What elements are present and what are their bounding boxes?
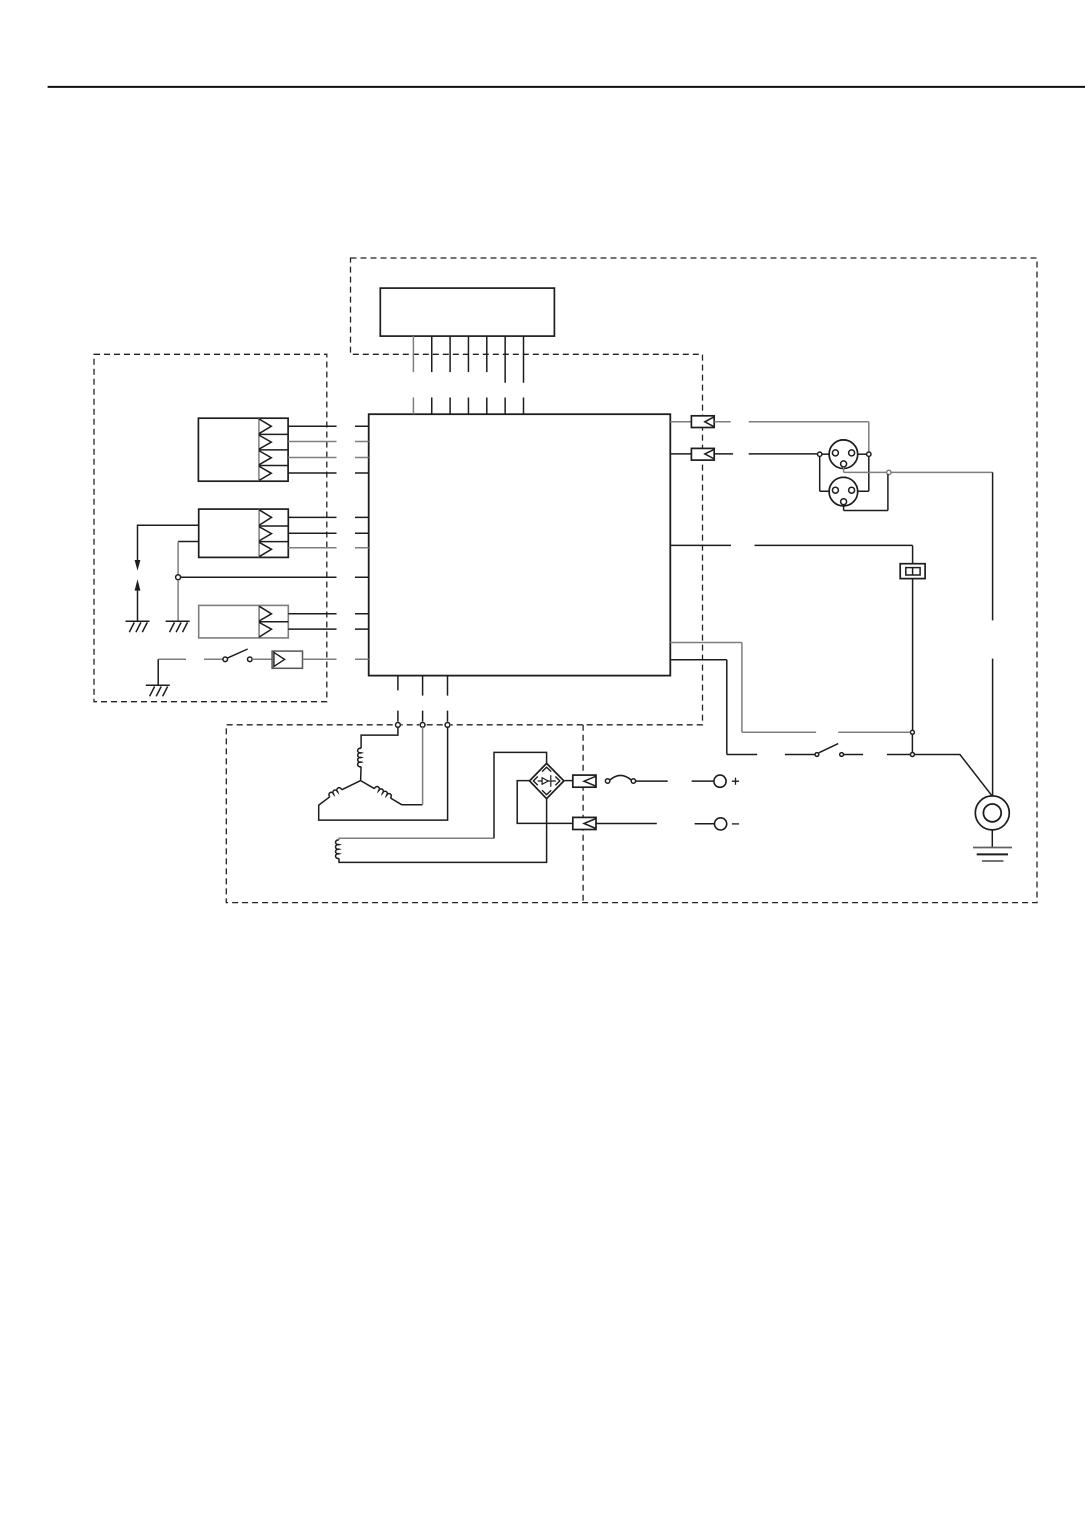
wire: display pin 6 (504, 336, 506, 414)
wire: J1 right terminal down to J2 (858, 456, 869, 491)
wire: CN2 pin 3 (288, 547, 368, 549)
wire: CN4 to XLR J1 pin2 (714, 422, 869, 453)
wire: J1 left terminal down to J2 (820, 456, 830, 491)
wire: rectifier plus lead (565, 780, 573, 782)
wire: CN3 pin 1 (288, 613, 368, 615)
connector CN3 (2-pin input jack block) (199, 605, 289, 638)
wire: main PCB mains B (670, 643, 910, 733)
wire: secondary bottom to rectifier AC2 (339, 799, 547, 863)
power switch S3 (815, 744, 843, 757)
wire: display pin 4 (467, 336, 469, 414)
wire: J1 right stub (858, 453, 867, 455)
node: shield bus junction (887, 470, 891, 474)
wire: terminal a to primary winding 1 (361, 727, 398, 748)
wire: main PCB mains C to power switch (670, 660, 815, 755)
wire: main PCB to transformer pin b (422, 676, 424, 723)
wire: CN2 pin 1 (288, 516, 368, 518)
earth terminal E1 (975, 796, 1009, 848)
switch S1 (mute switch) (158, 649, 252, 662)
wire: CN3 pin 2 (288, 628, 368, 630)
wire: display pin 1 (412, 336, 414, 414)
switch S2 (605, 775, 635, 783)
main PCB box U1 (369, 414, 671, 675)
transformer T1 primary winding 3 (coil) (374, 786, 392, 798)
wire: CN1 pin 4 (288, 472, 369, 474)
wire: shield bus to earth lead (891, 471, 993, 473)
wire: CN2 pin 2 (288, 532, 368, 534)
wire: display pin 2 (431, 336, 433, 414)
connector CN4 (691, 416, 714, 428)
node: transformer terminal c (444, 722, 451, 729)
node: ground bus junction (176, 575, 181, 580)
terminal node at J1 left (818, 452, 822, 456)
wire: J1 shell ground (844, 467, 887, 473)
wire: main PCB to transformer pin c (447, 676, 449, 723)
wire: node to node (911, 734, 913, 752)
wire: CN1 pin 1 (288, 425, 369, 427)
wire: CN7 to minus terminal (596, 823, 715, 825)
wire: CN5 to XLR J1 pin1 terminal (714, 453, 818, 455)
connector CN7 (minus) (573, 817, 596, 829)
wire: winding 1 to star point (360, 767, 363, 781)
node: mains junction upper (910, 730, 914, 734)
header rule (48, 86, 1085, 88)
wire: earth lead vertical (992, 472, 994, 796)
wire: main PCB line out B (670, 453, 691, 455)
wire: junction to chassis ground G2 (177, 580, 179, 621)
wire: display pin 7 (523, 336, 525, 414)
node: transformer terminal a (395, 722, 402, 729)
node: transformer terminal b (419, 722, 426, 729)
wire: fuse to node (912, 579, 914, 731)
terminal minus (715, 818, 740, 830)
wire: terminal into J1 (822, 453, 830, 455)
wire: winding 2 to terminal c loop (319, 727, 448, 820)
node: mains junction lower (910, 753, 914, 757)
wire: CN1 pin 3 (288, 457, 369, 459)
chassis ground G3 (146, 685, 170, 696)
dashed enclosure: main PCB and power supply (226, 258, 1037, 903)
wire: J2 shell ground (844, 474, 888, 510)
wire: S1 to chassis ground G3 (157, 659, 159, 685)
wire: winding 3 to terminal b (390, 798, 422, 805)
bridge rectifier D1 (530, 763, 564, 798)
wire: node to earth terminal (914, 755, 992, 797)
chassis ground G1 (126, 621, 150, 632)
arrow (from chassis) pointing up (135, 579, 141, 621)
buffer/diode box D2 (252, 651, 302, 668)
connector CN2 (3-pin input jack block) (199, 509, 289, 557)
connector CN6 (plus) (573, 775, 596, 787)
connector CN1 (4-pin input jack block) (198, 418, 288, 481)
wire: power switch to node (844, 754, 911, 756)
earth ground symbol (973, 848, 1012, 862)
chassis ground G2 (166, 621, 190, 632)
wire: S2 to plus terminal (636, 780, 714, 782)
transformer T1 primary winding 1 (coil) (358, 748, 361, 767)
wire: CN2 ground branch (178, 542, 199, 575)
arrow (to chassis) pointing down (135, 560, 141, 571)
wire: terminal b grey drop (422, 727, 424, 805)
wire: rectifier minus lead (517, 781, 573, 824)
wire: secondary top to rectifier AC1 (339, 752, 547, 840)
transformer T1 primary winding 2 (coil) (328, 787, 342, 797)
wire: CN2 shield to arrow (138, 525, 199, 560)
wire: star point to winding 3 (361, 781, 375, 789)
transformer T1 secondary winding (coil) (336, 840, 339, 859)
wire: star point to winding 2 (342, 781, 361, 790)
wire: main PCB line out A (670, 421, 691, 423)
XLR jack J1 (829, 440, 858, 469)
wire: ground bus to main PCB (181, 576, 369, 578)
wire: main PCB to transformer pin a (397, 676, 399, 723)
dashed divider: power supply section (582, 725, 584, 903)
connector CN5 (691, 448, 714, 460)
XLR jack J2 (829, 477, 858, 506)
terminal plus (714, 775, 739, 787)
wire: main PCB AC detect to fuse (670, 545, 912, 563)
fuse F1 (900, 564, 925, 579)
terminal node at J1 right (867, 452, 871, 456)
wire: display pin 5 (486, 336, 488, 414)
wire: display pin 3 (449, 336, 451, 414)
dashed enclosure: input jack panel (94, 354, 327, 701)
wire: S1 output to main PCB (303, 658, 369, 660)
display PCB box (380, 288, 554, 336)
wire: CN1 pin 2 (288, 441, 369, 443)
